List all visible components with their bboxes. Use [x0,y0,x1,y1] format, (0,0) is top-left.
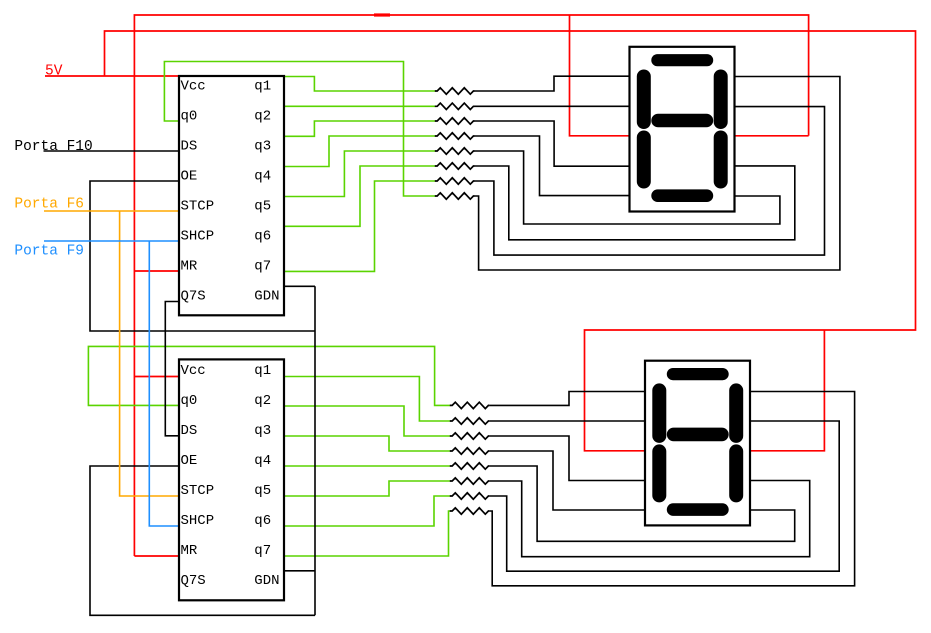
resistor R8 [435,193,475,199]
wire U1 q5 to resistor row5 (green) [284,151,435,197]
segment a (top) [651,54,713,66]
resistor R15 [450,493,490,499]
svg-text:q4: q4 [254,453,271,469]
wire U1 OE to ground line (black) [90,181,315,331]
wire U1 MR to 5V (red) [134,270,180,272]
resistor R7 [435,178,475,184]
svg-text:q3: q3 [254,423,271,439]
wire R16 wrap to DISP2 right pin1 (black) [489,392,854,586]
segment d (bottom) [667,503,729,516]
wire U2 q1 to resistor row10 (green) [284,377,450,422]
wire R15 wrap to DISP2 right pin2 (black) [489,421,839,571]
svg-text:Vcc: Vcc [181,363,206,379]
wire U2 q7 to resistor row16 (green) [284,511,450,556]
svg-text:DS: DS [181,423,198,439]
wire 5V rail lower (red): y=31 rail, right vertical x=915.5, display2 COM loop [105,31,916,451]
wire U2 q4 to resistor row13 (green) [284,465,450,467]
resistor R6 [435,163,475,169]
wire 5V rail upper (red): left vertical x=134 / top rail y=15 / right drop to display1 COM [134,15,808,556]
svg-text:MR: MR [181,543,198,559]
segment d (bottom) [651,189,713,202]
wire R13 wrap to DISP2 right pin5 (black) [489,466,795,541]
wire U1 GDN stub (black) [284,285,315,287]
resistor R3 [435,118,475,124]
7-segment display DISP2 (bottom) [645,361,750,526]
resistor R4 [435,133,475,139]
wire R11 to DISP2 left pin4 (black) [489,436,645,481]
resistor R13 [450,463,490,469]
wire STCP branch to U2 (orange) [120,211,180,496]
resistor R5 [435,148,475,154]
wire Porta F10 to U1 DS (black) [44,150,181,152]
wire U1 q3 to resistor row3 (green) [284,121,435,136]
wire R3 to DISP1 left pin4 (black) [474,121,630,166]
svg-text:q0: q0 [181,109,198,125]
svg-text:OE: OE [181,453,198,469]
svg-text:Q7S: Q7S [181,289,206,305]
wire U1 q0 over top to resistor row8 (green) [164,62,435,197]
resistor R1 [435,88,475,94]
resistor R10 [450,418,490,424]
wire U1 Q7S to U2 DS (black) [165,302,180,436]
svg-text:DS: DS [181,139,198,155]
wire 5V label feed (red) to U1 Vcc [45,75,180,77]
svg-text:q0: q0 [181,393,198,409]
resistor R16 [450,508,490,514]
wire U1 q6 to resistor row6 (green) [284,166,435,226]
wire U2 Vcc to 5V (red) [134,376,180,378]
svg-text:STCP: STCP [181,199,215,215]
op-amp U1 74HC595 shift register (top IC) [179,76,284,315]
7-segment display DISP1 (top) [630,47,735,212]
wire R9 to DISP2 left pin1 (black) [489,392,645,406]
svg-text:GDN: GDN [254,573,279,589]
resistor R12 [450,448,490,454]
segment e (bottom-left) [652,444,666,502]
wire U2 q3 to resistor row12 (green) [284,436,450,451]
wire R12 to DISP2 left pin5 (black) [489,451,645,510]
segment c (bottom-right) [729,444,743,502]
wire U1 q7 to resistor row7 (green) [284,181,435,271]
svg-text:SHCP: SHCP [181,229,215,245]
svg-text:STCP: STCP [181,483,215,499]
segment e (bottom-left) [637,131,651,189]
wire U2 q5 to resistor row14 (green) [284,481,450,496]
wire R14 wrap to DISP2 right pin4 (black) [489,481,810,557]
resistor R9 [450,402,490,408]
wire R2 to DISP1 left pin2 (black) [474,105,630,107]
svg-text:q4: q4 [254,169,271,185]
svg-text:q3: q3 [254,139,271,155]
wire ground bus vertical x=315 (black) [314,286,316,615]
svg-text:q6: q6 [254,229,271,245]
wire R5 wrap to DISP1 right pin5 (black) [474,151,780,224]
op-amp U2 74HC595 shift register (bottom IC) [179,359,284,600]
segment g (middle) [667,428,729,442]
svg-text:q1: q1 [254,79,271,95]
wire R6 wrap to DISP1 right pin4 (black) [474,166,795,240]
wire R8 wrap to DISP1 right pin1 (black) [474,77,840,271]
wire R4 to DISP1 left pin5 (black) [474,136,630,196]
resistor R14 [450,478,490,484]
svg-text:GDN: GDN [254,289,279,305]
segment b (top-right) [729,383,743,443]
wire R7 wrap to DISP1 right pin2 (black) [474,107,825,256]
svg-text:SHCP: SHCP [181,513,215,529]
svg-text:5V: 5V [45,64,63,80]
svg-text:Porta F10: Porta F10 [14,139,92,155]
svg-text:q5: q5 [254,483,271,499]
svg-text:q5: q5 [254,199,271,215]
wire U2 q2 to resistor row11 (green) [284,406,450,436]
wire R10 to DISP2 left pin2 (black) [489,420,645,422]
segment f (top-left) [652,383,666,443]
wire SHCP branch to U2 (blue) [149,241,180,526]
wire U2 MR to 5V (red) [134,555,180,557]
wire U2 q6 to resistor row15 (green) [284,496,450,526]
wire U2 q0 loop to resistor row9 (green) [88,346,450,405]
resistor R11 [450,433,490,439]
svg-text:Vcc: Vcc [181,79,206,95]
resistor R2 [435,103,475,109]
svg-text:Porta F6: Porta F6 [14,197,84,213]
svg-text:q7: q7 [254,259,271,275]
wire junction overlap on 5V rail (red) [374,13,390,16]
wire U1 q4 to resistor row4 (green) [284,136,435,167]
wire U2 OE to ground bottom (black) [90,466,315,615]
wire U1 q2 to resistor row2 (green) [284,105,435,107]
wire display1 COM loop (red): vertical x=569.5 and COM line y=135.8 [570,15,809,136]
wire Porta F6 to U1 STCP (orange) [44,210,180,212]
segment g (middle) [651,114,713,128]
segment c (bottom-right) [714,131,728,189]
svg-text:Q7S: Q7S [181,573,206,589]
svg-text:q7: q7 [254,543,271,559]
wire U1 q1 to resistor row1 (green) [284,77,435,92]
svg-text:q1: q1 [254,363,271,379]
segment f (top-left) [637,70,651,130]
svg-text:Porta F9: Porta F9 [14,244,84,260]
wire Porta F9 to U1 SHCP (blue) [44,240,180,242]
svg-text:MR: MR [181,259,198,275]
svg-text:q2: q2 [254,393,271,409]
svg-text:q6: q6 [254,513,271,529]
wire R1 to DISP1 left pin1 (black) [474,76,630,91]
segment a (top) [667,368,729,380]
segment b (top-right) [714,70,728,130]
svg-text:q2: q2 [254,109,271,125]
svg-text:OE: OE [181,169,198,185]
wire U2 GDN stub (black) [284,570,315,572]
